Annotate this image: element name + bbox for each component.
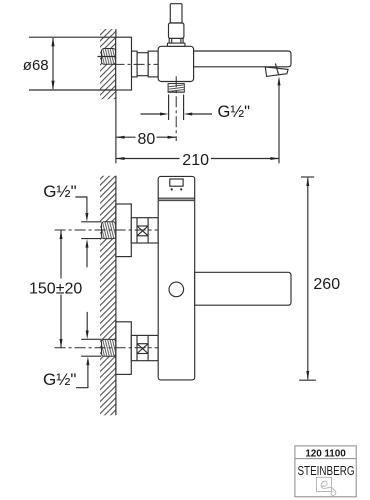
display dot left [171, 188, 173, 190]
svg-text:G½": G½" [218, 103, 251, 121]
spout outlet (side view) [265, 67, 288, 77]
nipple extension line right [183, 95, 185, 121]
nipple centerline vertical [175, 76, 177, 141]
faucet body (front view) [158, 176, 195, 380]
dimension ø68 extension bottom [29, 89, 116, 91]
connector neck segment 3 [148, 51, 158, 77]
display dot right [180, 188, 182, 190]
dimension G1/2 arrows (side view) [141, 113, 213, 116]
logo square [317, 477, 332, 491]
display window [170, 179, 183, 186]
dimension 80 line [116, 136, 176, 139]
connector neck segment 2 [137, 53, 148, 76]
wall hatch (front view) [100, 176, 116, 415]
bottom escutcheon (front view) [116, 322, 131, 375]
connector neck segment 1 [132, 51, 138, 77]
wall hatch (side view) [100, 29, 116, 99]
svg-text:260: 260 [313, 276, 340, 293]
outlet slant line [275, 64, 278, 76]
body centerline (side view) [114, 63, 162, 65]
handle stick (side view) [170, 4, 182, 23]
bottom pipe edge extension lines [81, 338, 101, 340]
knob circle [169, 282, 184, 297]
outlet extension line with arrow [278, 77, 281, 164]
handle flange (side view) [167, 43, 185, 46]
logo swirl [321, 481, 336, 495]
svg-text:G½": G½" [43, 182, 76, 201]
top escutcheon (front view) [116, 204, 131, 257]
bottom supply pipe (front view) [102, 339, 116, 356]
spout (front view) [195, 272, 291, 305]
label G1/2 bottom with leader [43, 312, 89, 389]
handle neck (side view) [169, 38, 183, 43]
bottom union nut [131, 335, 158, 360]
svg-text:G½": G½" [43, 370, 76, 389]
handle grip (side view) [169, 23, 184, 38]
nipple extension line left [168, 95, 170, 121]
dimension ø68 line [51, 37, 54, 89]
cap bottom band [158, 198, 195, 200]
wall face line (side view) [115, 29, 117, 99]
label G1/2 top with leader [43, 182, 88, 267]
svg-text:210: 210 [182, 152, 209, 169]
svg-text:150±20: 150±20 [29, 280, 82, 297]
svg-text:80: 80 [138, 131, 156, 148]
supply pipe in wall (side view) [102, 49, 116, 65]
threaded nipple (side view) [168, 84, 184, 93]
title block frame [295, 446, 356, 497]
top supply pipe (front view) [102, 222, 116, 239]
dimension 210 line [116, 157, 279, 160]
title block divider [295, 458, 356, 460]
wall face extension line down [115, 99, 117, 163]
top connection centerline [55, 229, 163, 231]
dimension 150±20 line [60, 230, 63, 348]
svg-text:STEINBERG: STEINBERG [297, 465, 354, 479]
dimension ø68 extension top [29, 36, 116, 38]
faucet body (side view) [158, 46, 193, 81]
escutcheon (side view) [116, 37, 132, 90]
dimension 260 [299, 177, 316, 380]
spout (side view) [194, 51, 291, 67]
top pipe edge extension lines [81, 221, 101, 223]
bottom connection centerline [55, 347, 163, 349]
wall face line (front view) [115, 176, 117, 415]
svg-text:ø68: ø68 [23, 57, 49, 74]
svg-text:120 1100: 120 1100 [305, 449, 346, 460]
top union nut [131, 218, 158, 243]
pipe centerline (side view) [98, 56, 120, 58]
